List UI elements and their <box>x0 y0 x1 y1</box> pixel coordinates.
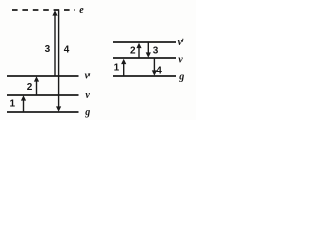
label 1 (left) <box>10 99 16 110</box>
left level v <box>7 94 79 96</box>
node v label (right) <box>178 54 183 65</box>
node g label (left) <box>84 107 90 118</box>
arrow 3 (right, v' down to v) <box>146 43 151 58</box>
svg-text:3: 3 <box>153 45 159 56</box>
arrow 1 (right, g to v) <box>121 59 126 76</box>
node e label <box>79 5 84 16</box>
node g label (right) <box>178 72 184 83</box>
svg-text:2: 2 <box>27 82 33 93</box>
node v' label (left) <box>85 71 90 82</box>
right level v' <box>113 41 176 43</box>
svg-text:e: e <box>79 5 84 16</box>
svg-text:2: 2 <box>130 46 136 57</box>
svg-text:3: 3 <box>45 44 51 55</box>
label 1 (right) <box>114 63 120 74</box>
svg-text:g: g <box>84 107 90 118</box>
arrow 3 (left, v' up to e) <box>52 10 57 75</box>
label 3 (right) <box>153 45 159 56</box>
left diagram: dashed excited level e <box>12 9 75 11</box>
svg-text:1: 1 <box>10 99 16 110</box>
arrow 2 (left, v to v') <box>34 76 39 94</box>
svg-text:v: v <box>178 37 183 48</box>
svg-text:v: v <box>85 90 90 101</box>
left level v' <box>7 75 79 77</box>
svg-text:4: 4 <box>156 65 162 76</box>
left level g <box>7 111 79 113</box>
svg-text:1: 1 <box>114 63 120 74</box>
svg-text:4: 4 <box>64 45 70 56</box>
right level v <box>113 57 176 59</box>
label 2 (left) <box>27 82 33 93</box>
node v label (left) <box>85 90 90 101</box>
label 4 (right) <box>156 65 162 76</box>
arrow 4 (right, v down to g) <box>152 59 157 76</box>
label 2 (right) <box>130 46 136 57</box>
right level g <box>113 75 176 77</box>
arrow 2 (right, v to v') <box>136 43 141 58</box>
svg-text:v: v <box>178 54 183 65</box>
arrow 1 (left, g to v) <box>21 95 26 111</box>
svg-text:g: g <box>178 72 184 83</box>
label 4 (left) <box>64 45 70 56</box>
node v' label (right) <box>178 37 183 48</box>
arrow 4 (left, e down to g) <box>56 11 61 112</box>
label 3 (left) <box>45 44 51 55</box>
